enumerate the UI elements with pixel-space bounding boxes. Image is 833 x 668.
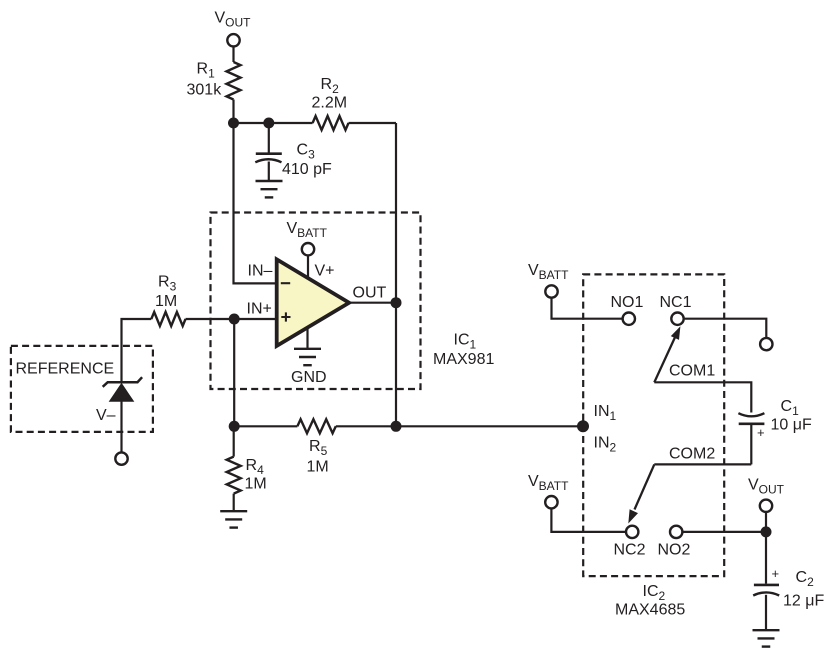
op-amp IC1 triangle xyxy=(277,259,349,346)
terminal V_OUT right xyxy=(760,500,772,512)
svg-text:COM1: COM1 xyxy=(669,363,715,380)
node IN+ junction xyxy=(229,314,240,325)
wire NC1 to upper right terminal xyxy=(685,319,767,338)
wire C1 to COM2 xyxy=(750,425,752,464)
switch SW1 arrowhead xyxy=(671,326,681,340)
ground under C3 xyxy=(256,181,283,197)
wire opamp out xyxy=(349,302,396,304)
label NC1 xyxy=(660,294,692,311)
REFERENCE dashed box xyxy=(11,346,153,432)
svg-text:IN+: IN+ xyxy=(247,300,272,317)
IC2 dashed box xyxy=(583,274,724,576)
label C1 xyxy=(781,398,800,418)
switch SW2 arrowhead xyxy=(628,509,638,523)
wire VOUT terminal to node xyxy=(765,512,767,532)
label C3 xyxy=(297,142,316,162)
wire VOUT to R1 xyxy=(232,47,234,63)
svg-text:MAX981: MAX981 xyxy=(433,351,494,368)
V_BATT label upper xyxy=(528,262,569,282)
node D junction xyxy=(391,421,402,432)
wire node A down to IN- corner xyxy=(234,123,277,283)
label 410 pF xyxy=(282,161,332,178)
terminal V_BATT IC1 xyxy=(302,243,314,255)
op-amp plus sign xyxy=(281,312,290,321)
terminal V_OUT top xyxy=(227,34,239,46)
svg-text:301k: 301k xyxy=(187,81,223,98)
label IN1 xyxy=(594,403,617,423)
label R4 xyxy=(246,457,265,477)
resistor R5 xyxy=(297,419,335,433)
label OUT xyxy=(353,285,387,302)
op-amp minus sign xyxy=(281,282,290,284)
wire node OUT down to node D xyxy=(395,303,397,427)
label 1M R4 xyxy=(245,476,267,493)
wire R2 to right rail xyxy=(349,122,397,124)
svg-text:12 μF: 12 μF xyxy=(783,593,824,610)
label NC2 xyxy=(614,542,646,559)
label COM1 xyxy=(669,363,715,380)
svg-text:NC1: NC1 xyxy=(660,294,692,311)
svg-text:1M: 1M xyxy=(307,458,329,475)
label 1M R5 xyxy=(307,458,329,475)
resistor R2 xyxy=(313,116,349,130)
node B junction xyxy=(263,118,274,129)
zener diode triangle xyxy=(110,384,134,402)
label 301k xyxy=(187,81,223,98)
wire VBATT to opamp V+ xyxy=(307,255,309,278)
terminal NC1 xyxy=(671,313,683,325)
V_BATT label IC1 xyxy=(287,220,328,240)
svg-text:MAX4685: MAX4685 xyxy=(615,602,685,619)
svg-text:2.2M: 2.2M xyxy=(312,95,348,112)
node OUT junction xyxy=(391,297,402,308)
wire VBATT to NO1 xyxy=(552,298,623,319)
capacitor C3 top plate xyxy=(256,152,282,155)
label C2 plus xyxy=(772,566,780,581)
zener diode cathode bar xyxy=(103,377,142,387)
label 2.2M xyxy=(312,95,348,112)
wire opamp gnd stem xyxy=(306,328,308,349)
capacitor C3 curved plate xyxy=(255,159,281,162)
svg-text:NC2: NC2 xyxy=(614,542,646,559)
terminal upper right xyxy=(760,338,772,350)
V_OUT label top xyxy=(215,10,252,30)
label REFERENCE xyxy=(16,360,115,377)
svg-text:1M: 1M xyxy=(245,476,267,493)
wire R5 to node D xyxy=(336,425,396,427)
label C1 plus xyxy=(757,425,765,440)
label COM2 xyxy=(669,446,715,463)
wire COM1 to C1 xyxy=(654,382,751,412)
V_OUT label right xyxy=(748,477,785,497)
svg-text:OUT: OUT xyxy=(353,285,387,302)
terminal V_BATT lower xyxy=(545,496,557,508)
label V+ xyxy=(315,263,335,280)
wire node C to R5 xyxy=(234,425,297,427)
terminal NO2 xyxy=(670,526,682,538)
capacitor C2 top plate xyxy=(754,584,779,587)
label 10 uF xyxy=(771,417,812,434)
svg-text:IN–: IN– xyxy=(248,263,273,280)
wire node C to R4 xyxy=(233,426,235,456)
node A junction xyxy=(228,118,239,129)
svg-text:1M: 1M xyxy=(155,293,177,310)
terminal V- bottom xyxy=(115,452,127,464)
wire C2 to ground xyxy=(765,595,767,629)
label MAX4685 xyxy=(615,602,685,619)
IC1 dashed box xyxy=(211,213,421,390)
svg-text:10 μF: 10 μF xyxy=(771,417,812,434)
wire IN+ down to node C xyxy=(233,319,235,426)
svg-text:+: + xyxy=(772,566,780,581)
svg-text:NO1: NO1 xyxy=(611,294,644,311)
wire node B to C3 xyxy=(268,123,270,153)
node C junction xyxy=(229,421,240,432)
wire VOUT node to C2 xyxy=(765,532,767,584)
wire C3 to ground xyxy=(268,162,270,181)
label 12 uF xyxy=(783,593,824,610)
ground GND opamp xyxy=(294,349,321,365)
label IN- xyxy=(248,263,273,280)
svg-text:NO2: NO2 xyxy=(658,542,691,559)
ground under C2 xyxy=(753,630,780,646)
wire R1 to node A xyxy=(232,100,234,124)
V_BATT label lower xyxy=(528,473,569,493)
svg-text:+: + xyxy=(757,425,765,440)
label V- xyxy=(96,407,116,424)
wire COM2 xyxy=(654,463,751,465)
wire node B to R2 xyxy=(269,122,313,124)
switch SW1 wiper xyxy=(654,335,676,382)
svg-text:REFERENCE: REFERENCE xyxy=(16,360,115,377)
wire VBATT to NC2 xyxy=(551,508,625,532)
label GND xyxy=(291,369,327,386)
label MAX981 xyxy=(433,351,494,368)
ground under R4 xyxy=(220,511,247,527)
svg-text:COM2: COM2 xyxy=(669,446,715,463)
wire R4 to ground xyxy=(233,494,235,510)
resistor R4 xyxy=(227,457,241,494)
label NO1 xyxy=(611,294,644,311)
terminal V_BATT upper xyxy=(545,285,557,297)
switch SW2 wiper xyxy=(635,464,655,509)
wire NO2 to VOUT node xyxy=(683,531,766,533)
label R1 xyxy=(197,61,216,81)
wire R3 to IN+ xyxy=(186,318,277,320)
svg-text:V+: V+ xyxy=(315,263,335,280)
label C2 xyxy=(796,569,815,589)
capacitor C1 bottom plate xyxy=(739,422,765,425)
node VOUT junction xyxy=(761,526,772,537)
wire node A to node B xyxy=(234,122,269,124)
wire right rail down to OUT xyxy=(395,123,397,303)
label R2 xyxy=(321,76,340,96)
wire zener to terminal xyxy=(120,401,122,452)
label R3 xyxy=(158,274,177,294)
label IC2 xyxy=(643,583,666,603)
terminal NO1 xyxy=(623,313,635,325)
resistor R1 xyxy=(227,62,241,100)
wire node D to IN1 xyxy=(396,425,583,427)
label IN+ xyxy=(247,300,272,317)
label IN2 xyxy=(594,435,617,455)
svg-text:V–: V– xyxy=(96,407,116,424)
svg-text:GND: GND xyxy=(291,369,327,386)
label NO2 xyxy=(658,542,691,559)
node IN1 junction xyxy=(577,420,589,432)
svg-text:410 pF: 410 pF xyxy=(282,161,332,178)
resistor R3 xyxy=(151,312,185,326)
label 1M R3 xyxy=(155,293,177,310)
wire R3 left corner xyxy=(122,319,152,381)
label R5 xyxy=(309,438,328,458)
label IC1 xyxy=(454,332,477,352)
capacitor C1 curved plate xyxy=(738,413,764,416)
capacitor C2 curved plate xyxy=(753,592,779,595)
terminal NC2 xyxy=(626,526,638,538)
